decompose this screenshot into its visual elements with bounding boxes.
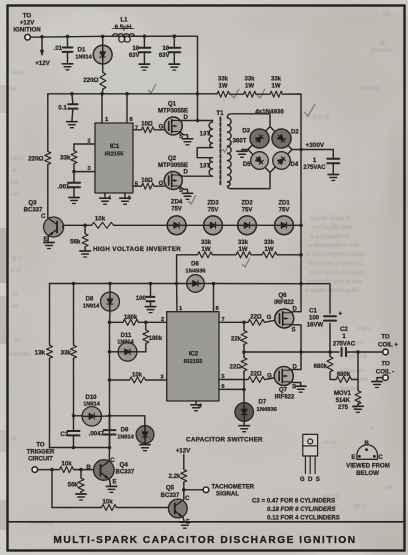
node +12V arrow tap	[40, 35, 44, 39]
capacitor .001	[73, 172, 75, 183]
diode D9 1N914	[110, 416, 145, 426]
diode D1 1N914	[101, 35, 105, 39]
resistor 680k #1 (vertical)	[329, 352, 331, 356]
T1 core	[219, 118, 221, 186]
wire to coil+ terminal	[356, 350, 360, 354]
T1 center bracket	[197, 148, 212, 158]
wire +12V rail y=93.8	[48, 93, 198, 95]
resistor 22Ω (vertical, rail to pin6)	[243, 352, 245, 357]
diode D6 1N4936	[187, 275, 205, 293]
zener ZD1 75V	[238, 224, 275, 226]
svg-text:MULTI-SPARK CAPACITOR DISCHARG: MULTI-SPARK CAPACITOR DISCHARGE IGNITION	[53, 535, 356, 546]
wire top +12V rail	[30, 36, 197, 37]
TO-92 package (BC337 pinout, viewed from below)	[357, 445, 378, 459]
resistor 10k (Q3 base to ZD4)	[92, 222, 114, 228]
resistor 680k #2 (horizontal)	[336, 377, 351, 383]
ground at bridge left vertex	[242, 150, 248, 152]
capacitor C1 100 16VW	[301, 284, 330, 314]
resistor 10k (to Q5 base)	[102, 505, 117, 511]
TO-220 package (MOSFET pinout)	[303, 434, 318, 473]
capacitor 0.1	[70, 92, 74, 96]
op-amp IC1 IR2155 box	[100, 92, 104, 96]
pin 7 lead + resistor 10Ω (Q1 gate)	[133, 129, 142, 131]
capacitor 10 63V (second)	[173, 34, 177, 38]
pin 6 lead	[219, 388, 244, 390]
zener ZD2 75V	[204, 224, 238, 226]
capacitor 10 63V (first)	[143, 34, 147, 38]
varistor MOV1 514K 275	[357, 352, 359, 391]
resistor 13k (vertical)	[49, 284, 51, 346]
terminal TO +12V IGNITION	[25, 34, 31, 40]
wire +300V vertical rail	[300, 150, 302, 284]
transistor Q7 IRF822	[274, 367, 293, 386]
wire D8 chain vertical	[109, 322, 111, 445]
resistor 33k (vertical)	[72, 282, 76, 286]
pin 6 ground	[124, 193, 126, 197]
resistor 180k (vertical)	[145, 322, 147, 330]
resistor 33k 1W #2	[244, 91, 256, 97]
resistor 56k (Q4 base to gnd)	[80, 470, 82, 478]
resistor 10k (trigger to Q4 base)	[60, 467, 74, 473]
wire secondary top to bridge	[228, 114, 271, 127]
resistor 33k 1W #4	[198, 252, 213, 258]
resistor 2.2k	[181, 470, 187, 483]
zener ZD3 75V	[167, 224, 203, 226]
T1 primary winding 2 (13T)	[209, 158, 212, 177]
bottom wire	[50, 447, 110, 449]
resistor 220Ω below D1	[102, 64, 104, 72]
title separator line	[7, 521, 404, 523]
node +300V	[292, 149, 333, 151]
T1 primary winding 1 (13T)	[209, 121, 212, 148]
wire to +300V vertical	[283, 94, 302, 149]
pin 3 lead	[74, 171, 95, 173]
resistor 33k 1W #1	[217, 91, 229, 97]
wire rail	[50, 283, 302, 285]
capacitor .0047	[109, 416, 111, 430]
diode D7 1N4936	[243, 389, 245, 403]
output rail y=352	[244, 351, 339, 353]
resistor 22k (pin7 to out rail)	[243, 322, 245, 330]
wire +12V feed down to T1 center area	[197, 36, 199, 120]
diode D11 1N914	[110, 351, 119, 353]
pin 4 ground	[195, 401, 197, 404]
wire to Q5 base	[52, 470, 102, 508]
capacitor .01	[66, 35, 70, 39]
pencil check marks	[148, 84, 360, 409]
capacitor 100 (pF)	[149, 282, 153, 286]
capacitor C2 1 275VAC	[342, 348, 346, 357]
resistor 56k (Q3 base)	[83, 224, 87, 228]
diode D5	[251, 152, 269, 170]
diode D4	[273, 152, 291, 170]
pin 3 lead + resistor 10k	[146, 379, 167, 381]
diode D3	[250, 129, 269, 148]
pin 2 lead + resistor 33k	[74, 143, 95, 145]
pin 7 lead + resistor 22Ω	[219, 321, 248, 323]
resistor 33k 1W #3	[270, 91, 282, 97]
diode D10 1N914	[72, 414, 76, 418]
pin 5 lead + resistor 22Ω (Q7 gate)	[219, 379, 248, 381]
diode D8 1N914	[108, 282, 112, 286]
resistor 33k 1W #5	[236, 252, 251, 258]
T1 secondary 360T	[228, 117, 232, 186]
capacitor 1 275VAC	[332, 150, 334, 159]
wire secondary bottom to bridge	[228, 173, 271, 189]
resistor 220Ω (Q3 collector load)	[47, 94, 49, 152]
op-amp IC2 IR2155 box	[177, 284, 214, 312]
capacitor C3	[68, 431, 80, 435]
resistor 33k 1W #6	[262, 252, 277, 258]
pin 4 ground	[104, 193, 106, 197]
diode D2	[272, 129, 291, 148]
wire 33k row feed	[198, 93, 218, 95]
terminal TO COIL +	[383, 349, 389, 355]
pin 5 lead + resistor 10Ω (Q2 gate)	[133, 185, 142, 187]
bridge diagonal wires	[248, 127, 292, 173]
pin 2 lead + resistor 180k	[139, 321, 167, 323]
wire tachometer tap	[184, 489, 203, 491]
